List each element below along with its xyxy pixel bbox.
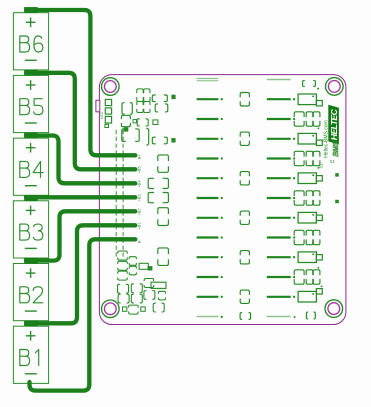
capacitor footprint C column row 5	[240, 172, 249, 177]
balance trace right row 7	[267, 217, 291, 219]
battery B1 positive terminal pad	[24, 321, 38, 327]
resistor footprint left row	[155, 104, 158, 112]
Heltec logo block	[328, 105, 339, 145]
mounting hole top-right	[326, 78, 344, 96]
test pad 2	[171, 138, 175, 142]
capacitor footprint between wire rows 1-2	[158, 155, 169, 161]
wire B5+ to +B5 pad	[26, 73, 135, 170]
wire B3+ to +B3 pad	[26, 195, 135, 199]
balance trace right row 10	[267, 276, 291, 278]
svg-text:B+: B+	[138, 154, 142, 160]
battery B6 positive terminal pad	[24, 7, 38, 13]
svg-text:+B1: +B1	[138, 222, 142, 229]
balance trace centre row 5	[197, 177, 219, 179]
resistor-capacitor group row 4	[294, 151, 320, 165]
transistor Q row 9	[298, 252, 322, 263]
battery B3	[13, 201, 48, 258]
balance trace right row 2	[267, 118, 291, 120]
balance trace right row 6	[267, 197, 291, 199]
battery B2	[13, 264, 48, 321]
balance trace centre row 3	[197, 138, 219, 140]
resistor footprint wire row 4	[148, 193, 154, 203]
balance trace centre row 10	[197, 276, 219, 278]
balance trace right row 5	[267, 177, 291, 179]
pale silkscreen trace centre row 0	[197, 78, 219, 80]
footprint cluster bottom-left	[118, 251, 167, 314]
NTC pad 1	[105, 99, 111, 105]
battery B6	[13, 13, 48, 70]
transistor Q row 11	[298, 289, 322, 302]
balance trace right row 4	[267, 157, 291, 159]
capacitor footprint C column row 3	[240, 132, 249, 137]
svg-text:S1: S1	[330, 159, 336, 164]
balance trace right row 1	[267, 98, 291, 100]
svg-text:NTC: NTC	[100, 111, 104, 119]
test pad 1	[171, 95, 175, 99]
capacitor footprint C column row 7	[240, 211, 249, 216]
capacitor footprint C column row 11	[240, 290, 249, 295]
resistor-capacitor group row 8	[294, 230, 320, 244]
NTC pad 2	[105, 108, 111, 114]
resistor-capacitor group row 10	[294, 270, 320, 284]
BMS text	[331, 141, 340, 157]
wire B2+ to +B2 pad	[26, 211, 135, 260]
NTC pad small	[105, 124, 109, 127]
dashed silkscreen line 1	[115, 130, 117, 258]
balance trace right row 11	[267, 296, 291, 298]
balance trace right row 9	[267, 256, 291, 258]
capacitor footprint below wire row 7	[158, 248, 169, 254]
connector mark row 12 left	[240, 313, 242, 320]
capacitor footprint C column row 1	[240, 93, 249, 98]
battery B5	[13, 75, 48, 132]
balance trace centre row 11	[197, 296, 219, 298]
capacitor footprint C column row 9	[240, 251, 249, 256]
capacitor footprint between wire rows 5-6	[158, 208, 169, 214]
transistor Q row 1	[298, 94, 322, 106]
svg-text:+B3: +B3	[138, 194, 142, 201]
balance trace centre row 7	[197, 217, 219, 219]
balance trace centre row 8	[197, 236, 219, 238]
mounting hole top-left	[102, 78, 120, 96]
balance trace centre row 6	[197, 197, 219, 199]
wire B4+ to +B4 pad	[26, 136, 135, 184]
svg-text:+B4: +B4	[138, 180, 142, 187]
balance trace right row 8	[267, 236, 291, 238]
resistor-capacitor group row 2	[294, 112, 320, 126]
battery B3 positive terminal pad	[24, 195, 38, 201]
resistor footprint wire row 3	[148, 178, 154, 188]
connector mark row 0	[303, 81, 305, 87]
NTC connector notch on left board edge	[96, 100, 100, 112]
svg-text:+B5: +B5	[138, 166, 142, 173]
NTC pad 3	[105, 116, 111, 123]
resistor-capacitor group row 6	[294, 191, 320, 205]
dashed silkscreen line 2	[122, 130, 124, 258]
resistor footprint top column row1	[152, 95, 155, 102]
wide resistor	[151, 282, 166, 288]
balance trace right row 3	[267, 138, 291, 140]
svg-text:+B2: +B2	[138, 208, 142, 215]
resistor footprint top column row3	[152, 137, 155, 144]
balance trace centre row 9	[197, 256, 219, 258]
PCB board outline	[99, 75, 346, 325]
footprint cluster top-left	[121, 89, 157, 145]
svg-text:BMS: BMS	[331, 141, 340, 157]
wire B1- to B- pad	[30, 239, 136, 390]
battery B4 positive terminal pad	[24, 133, 38, 139]
mounting hole bottom-right	[325, 300, 343, 318]
wire B1+ to +B1 pad	[26, 225, 135, 323]
battery B5 positive terminal pad	[24, 70, 38, 76]
transistor Q row 5	[298, 173, 322, 184]
svg-text:Heltec-BMS.com: Heltec-BMS.com	[323, 120, 329, 158]
pale silkscreen trace right row 12	[267, 316, 291, 318]
Heltec-BMS.com text	[323, 120, 329, 158]
battery B2 positive terminal pad	[24, 258, 38, 264]
battery B4	[13, 138, 48, 195]
pale silkscreen trace centre row 12	[197, 316, 219, 318]
edge pad B	[335, 200, 339, 203]
svg-text:HELTEC: HELTEC	[329, 108, 339, 140]
balance trace centre row 1	[197, 98, 219, 100]
balance trace centre row 2	[197, 118, 219, 120]
transistor Q row 7	[298, 212, 322, 223]
balance trace centre row 4	[197, 157, 219, 159]
edge pad A	[335, 173, 339, 176]
mounting hole bottom-left	[102, 300, 120, 318]
transistor Q row 3	[298, 133, 322, 145]
wire B6+ to B+ pad	[26, 10, 135, 155]
battery B1	[13, 326, 48, 383]
svg-text:S1: S1	[319, 163, 324, 169]
pale silkscreen trace right row 0	[267, 79, 291, 81]
connector mark row 12 right	[306, 312, 308, 319]
